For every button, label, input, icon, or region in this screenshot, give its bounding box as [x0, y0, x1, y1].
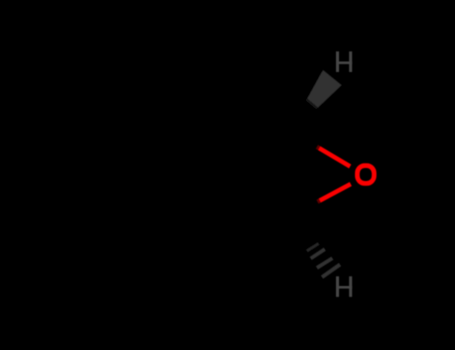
ring skeleton (black, invisible on black background): [148, 100, 305, 275]
atom O (epoxide oxygen): [357, 166, 374, 184]
bond C6-O (red half): [320, 184, 351, 201]
wedge bond H fade fringe (anti-aliased base of wedge): [306, 72, 340, 110]
bond C1-O dark tip (fade into black half-bond): [317, 147, 320, 149]
bond C1-O (red half): [319, 148, 350, 166]
atom H (top): [336, 51, 352, 72]
hashed bond C6-H: dash 3: [317, 258, 333, 268]
hashed bond C6-H: dash 2: [311, 249, 325, 258]
atom H (bottom): [336, 276, 352, 297]
bond C6-O dark tip (fade into black half-bond): [318, 200, 321, 201]
wedge bond H (solid stereo wedge, C1 to H): [307, 70, 341, 108]
hashed bond C6-H: dash 1: [307, 244, 319, 251]
hashed bond C6-H: dash 4: [322, 265, 340, 278]
wire ring bonds: [148, 100, 305, 275]
